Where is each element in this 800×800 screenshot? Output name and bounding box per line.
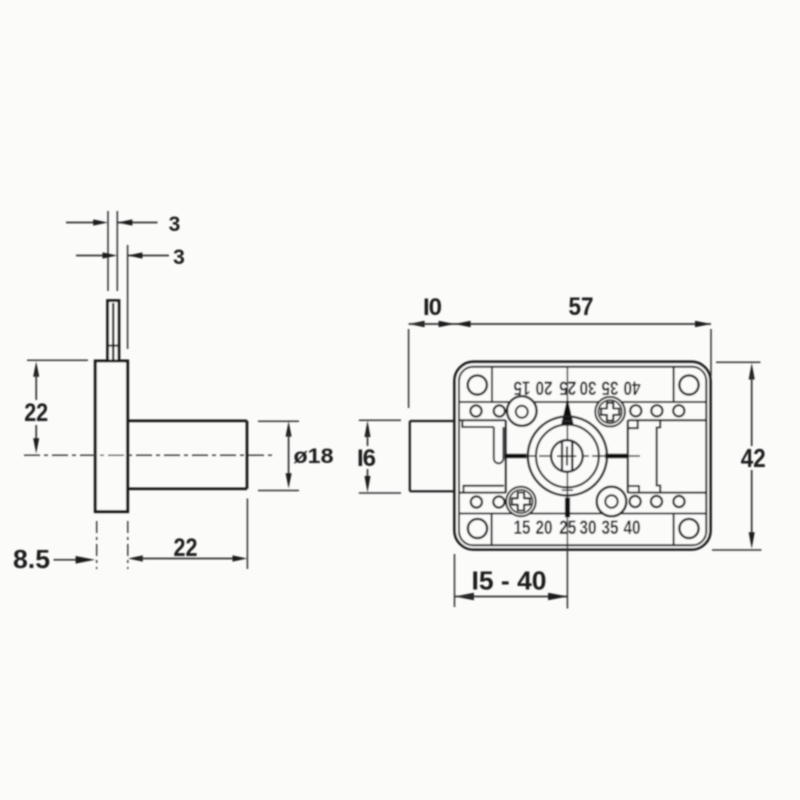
key cylinder flat right — [571, 442, 573, 471]
screw bottom-left outer — [506, 487, 536, 517]
top hole band line right — [628, 419, 706, 421]
small hole row top-right 3 — [673, 405, 684, 416]
svg-text:15: 15 — [513, 376, 530, 398]
centerline tick bottom — [562, 489, 573, 491]
corner hole bottom-left — [468, 519, 487, 538]
separator top-right — [673, 367, 675, 402]
crosshair thick bar right — [605, 454, 628, 459]
svg-text:I5 - 40: I5 - 40 — [472, 566, 547, 596]
dimension 42 extension top — [716, 361, 761, 363]
svg-text:I0: I0 — [423, 294, 442, 321]
dimension 16 line lower — [367, 469, 369, 481]
svg-text:8.5: 8.5 — [13, 544, 50, 574]
svg-text:30: 30 — [579, 376, 596, 398]
left slider bottom step — [464, 486, 505, 493]
extension line pin-left — [107, 211, 109, 291]
locking pin body — [108, 301, 119, 361]
screw bottom-left inner — [509, 490, 532, 513]
cylinder ring inner — [536, 425, 599, 488]
left slider step — [462, 420, 494, 427]
dimension 16 line upper — [367, 433, 369, 446]
dimension 15-40 arrow right — [548, 593, 567, 601]
top scale band line — [459, 401, 706, 403]
lock case inner outline — [459, 367, 706, 546]
dimension 3 (lower) line right — [128, 255, 169, 257]
latch protrusion bottom edge — [410, 490, 455, 492]
svg-text:42: 42 — [741, 445, 766, 473]
dimension 42 extension bottom — [712, 549, 762, 551]
dimension 22 (left) line upper — [35, 373, 37, 400]
small hole row top-left 1 — [470, 405, 481, 416]
small hole row bottom-right 3 — [673, 496, 684, 507]
small hole row top-right 2 — [651, 405, 662, 416]
extension line pin-right — [116, 211, 118, 291]
corner hole top-left — [468, 375, 487, 394]
right bracket — [657, 420, 661, 492]
dimension 3 (lower) arrow left — [103, 252, 118, 258]
dimension 8.5 leader line — [54, 559, 81, 561]
separator bottom-left — [491, 514, 493, 546]
dimension 3 (upper) line right — [118, 222, 158, 224]
bottom hole band line left — [459, 492, 506, 494]
svg-text:3: 3 — [169, 213, 181, 236]
dimension o18 line — [288, 433, 290, 477]
lock cylinder end face — [246, 421, 249, 489]
dimension 57 extension right — [710, 329, 712, 376]
screw top-right inner — [599, 400, 622, 423]
horizontal centerline — [503, 455, 640, 457]
guide ring bottom-right hole — [605, 495, 617, 507]
latch protrusion left edge — [409, 421, 411, 491]
key cylinder flat left — [561, 442, 563, 471]
svg-text:22: 22 — [24, 399, 48, 427]
dimension 15-40 line — [455, 596, 568, 598]
locking pin middle line — [112, 303, 114, 360]
crosshair arrow up — [561, 398, 574, 425]
dimension 15-40 extension left — [454, 554, 456, 607]
bottom scale band line — [459, 513, 706, 515]
svg-text:I6: I6 — [357, 445, 376, 472]
extension line cylinder-end lower — [246, 499, 248, 570]
dimension 42 line upper — [751, 375, 753, 446]
latch protrusion top edge — [410, 420, 455, 422]
svg-text:57: 57 — [569, 293, 594, 321]
cylinder ring outer — [528, 416, 607, 495]
small hole row bottom-left 1 — [471, 496, 482, 507]
screw top-right outer — [595, 397, 625, 427]
dimension 3 (upper) arrow right — [118, 219, 133, 225]
dimension 10 arrow left — [409, 321, 425, 327]
key slot center line — [566, 446, 568, 465]
lock case outer outline — [455, 362, 711, 550]
small hole row top-right 1 — [630, 405, 641, 416]
screw top-right cross — [601, 403, 619, 421]
corner hole bottom-right — [679, 519, 698, 538]
centerline tick top — [562, 420, 573, 422]
locking pin joint line — [108, 345, 119, 347]
right slider top tab — [628, 420, 638, 428]
lock cylinder top edge — [128, 419, 247, 422]
svg-text:40: 40 — [623, 376, 640, 398]
dimension 22 (left) arrow up — [33, 362, 39, 377]
guide ring top-left hole — [516, 406, 528, 418]
svg-text:40: 40 — [624, 517, 641, 539]
separator top-left — [491, 367, 493, 402]
extension line plate-left lower — [96, 521, 98, 569]
dimension 57 arrow right — [695, 321, 711, 327]
cylinder centerline — [24, 454, 272, 456]
left slider slot finger — [494, 427, 504, 463]
separator bottom-right — [673, 514, 675, 546]
dimension 42 arrow up — [749, 363, 755, 380]
vertical centerline — [566, 367, 568, 609]
dimension o18 arrow down — [286, 473, 292, 488]
dimension 3 (upper) line left — [66, 222, 96, 224]
mounting plate (side view) — [95, 361, 127, 512]
svg-text:30: 30 — [580, 517, 597, 539]
dimension 22 (left) line lower — [35, 425, 37, 442]
guide ring top-left — [507, 396, 537, 426]
right slider bottom tab — [628, 486, 639, 493]
svg-text:20: 20 — [536, 517, 553, 539]
svg-text:25: 25 — [559, 517, 576, 539]
dimension 10-57 line — [409, 323, 711, 325]
dimension 3 (lower) arrow right — [128, 252, 143, 258]
corner hole top-right — [679, 375, 698, 394]
dimension 3 (upper) arrow left — [93, 219, 108, 225]
dimension 22 (bottom) line — [139, 558, 236, 560]
key cylinder face — [551, 440, 583, 472]
crosshair thick bar bottom — [565, 498, 570, 518]
dimension 57 arrow left2 — [455, 321, 471, 327]
dimension 22 (bottom) arrow left — [128, 555, 143, 561]
svg-text:35: 35 — [602, 517, 619, 539]
dimension 57 arrow left — [439, 321, 455, 327]
dimension 42 arrow down — [749, 532, 755, 549]
dimension 16 arrow down — [365, 476, 371, 493]
small hole row top-left 2 — [494, 405, 505, 416]
svg-text:25: 25 — [559, 376, 576, 398]
dimension 8.5 leader arrow — [76, 556, 95, 564]
svg-text:35: 35 — [601, 376, 618, 398]
guide ring bottom-right — [597, 487, 627, 517]
dimension o18 extension top — [258, 420, 299, 422]
dimension 15-40 arrow left — [455, 593, 474, 601]
dimension 22 (left) arrow down — [33, 438, 39, 453]
dimension 16 extension bottom — [359, 492, 401, 494]
extension line plate-right — [127, 245, 129, 349]
small hole row bottom-right 1 — [630, 496, 641, 507]
lock cylinder bottom edge — [128, 487, 247, 490]
dimension 16 arrow up — [365, 421, 371, 438]
svg-text:3: 3 — [173, 246, 185, 269]
crosshair thick bar left — [505, 454, 526, 459]
extension line plate-right lower — [127, 521, 129, 569]
svg-text:15: 15 — [514, 517, 531, 539]
dimension 22 (bottom) arrow right — [233, 555, 248, 561]
dimension o18 arrow up — [286, 421, 292, 436]
small hole row bottom-right 2 — [651, 496, 662, 507]
small hole row bottom-left 2 — [493, 496, 504, 507]
svg-text:22: 22 — [174, 534, 198, 562]
bottom hole band line right — [628, 492, 707, 494]
dimension 42 line lower — [751, 470, 753, 537]
left slider dark edge — [505, 420, 507, 492]
dimension o18 extension bottom — [258, 490, 299, 492]
svg-text:ø18: ø18 — [294, 445, 334, 468]
top hole band line left — [459, 419, 506, 421]
right slider edge — [627, 420, 629, 493]
dimension 22 (left) extension top — [27, 359, 88, 361]
dimension 10 extension left — [408, 329, 410, 408]
dimension 3 (lower) line left — [76, 255, 105, 257]
key cylinder centerline tick — [557, 455, 576, 457]
dimension 16 extension top — [359, 419, 401, 421]
screw bottom-left cross — [512, 493, 530, 511]
svg-text:20: 20 — [535, 376, 552, 398]
